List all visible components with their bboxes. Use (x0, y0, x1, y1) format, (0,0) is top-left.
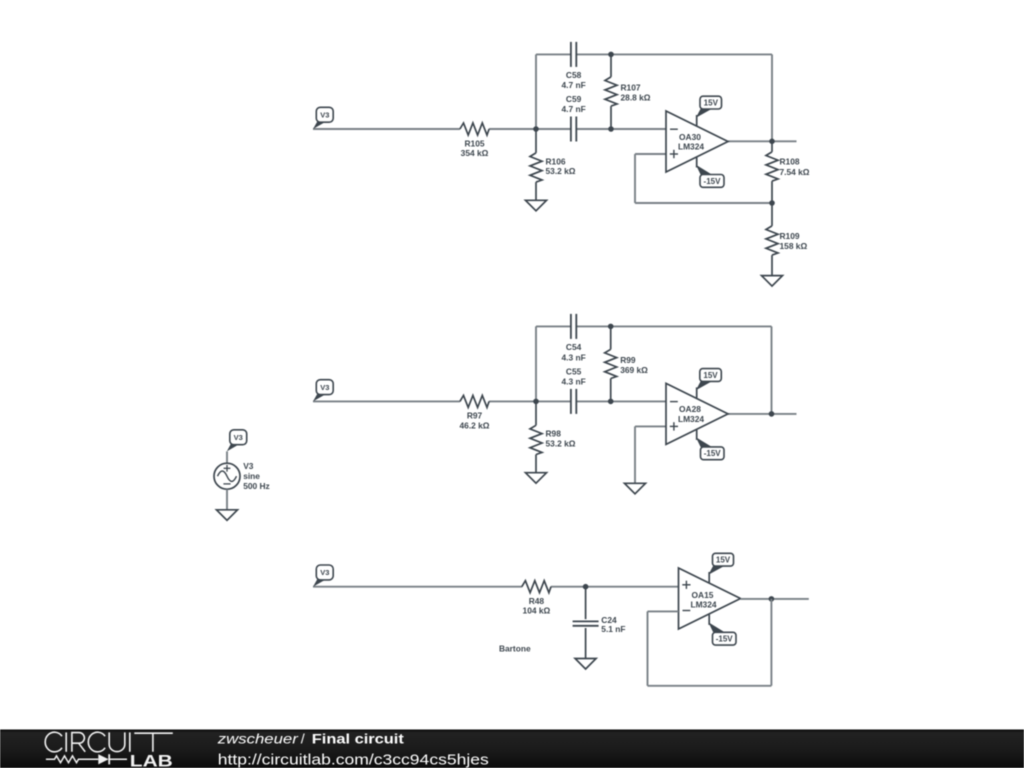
svg-text:LAB: LAB (130, 752, 173, 768)
svg-text:V3: V3 (320, 383, 329, 392)
svg-text:R98: R98 (546, 429, 562, 439)
svg-text:C54: C54 (566, 342, 582, 352)
svg-text:zwscheuer: zwscheuer (217, 731, 300, 747)
svg-text:53.2 kΩ: 53.2 kΩ (546, 166, 576, 176)
svg-text:354 kΩ: 354 kΩ (461, 148, 489, 158)
svg-text:369 kΩ: 369 kΩ (620, 365, 648, 375)
svg-text:C59: C59 (566, 94, 582, 104)
svg-text:104 kΩ: 104 kΩ (523, 605, 551, 615)
svg-text:R108: R108 (780, 157, 800, 167)
svg-text:C55: C55 (566, 367, 582, 377)
svg-text:4.7 nF: 4.7 nF (561, 104, 585, 114)
svg-text:V3: V3 (320, 568, 329, 577)
svg-text:V3: V3 (320, 111, 329, 120)
svg-text:sine: sine (243, 471, 260, 481)
svg-text:R109: R109 (780, 231, 800, 241)
svg-text:-15V: -15V (716, 635, 734, 644)
svg-text:4.3 nF: 4.3 nF (561, 377, 585, 387)
svg-text:C58: C58 (566, 70, 582, 80)
svg-text:OA30: OA30 (679, 132, 701, 142)
svg-text:158 kΩ: 158 kΩ (780, 241, 808, 251)
svg-text:5.1 nF: 5.1 nF (601, 624, 625, 634)
svg-text:4.3 nF: 4.3 nF (561, 353, 585, 363)
svg-text:/: / (301, 731, 305, 747)
svg-text:http://circuitlab.com/c3cc94cs: http://circuitlab.com/c3cc94cs5hjes (218, 751, 489, 768)
svg-text:46.2 kΩ: 46.2 kΩ (460, 421, 490, 431)
svg-text:500 Hz: 500 Hz (243, 481, 270, 491)
svg-text:Bartone: Bartone (499, 644, 531, 654)
svg-text:LM324: LM324 (678, 141, 704, 151)
svg-text:R97: R97 (467, 411, 483, 421)
svg-text:OA28: OA28 (679, 404, 701, 414)
svg-text:15V: 15V (703, 371, 718, 380)
svg-text:R48: R48 (529, 596, 545, 606)
svg-text:4.7 nF: 4.7 nF (561, 80, 585, 90)
svg-text:15V: 15V (704, 99, 719, 108)
svg-text:LM324: LM324 (690, 600, 716, 610)
svg-text:R107: R107 (621, 83, 641, 93)
svg-text:V3: V3 (243, 461, 254, 471)
svg-text:28.8 kΩ: 28.8 kΩ (621, 93, 651, 103)
svg-text:R106: R106 (546, 156, 566, 166)
svg-text:53.2 kΩ: 53.2 kΩ (546, 439, 576, 449)
svg-text:V3: V3 (234, 433, 243, 442)
svg-text:R105: R105 (464, 138, 484, 148)
svg-text:7.54 kΩ: 7.54 kΩ (780, 167, 810, 177)
svg-text:-15V: -15V (704, 177, 722, 186)
svg-text:R99: R99 (620, 355, 636, 365)
svg-text:LM324: LM324 (678, 414, 704, 424)
svg-text:Final circuit: Final circuit (312, 731, 404, 747)
svg-text:-15V: -15V (704, 449, 722, 458)
svg-text:15V: 15V (716, 556, 731, 565)
